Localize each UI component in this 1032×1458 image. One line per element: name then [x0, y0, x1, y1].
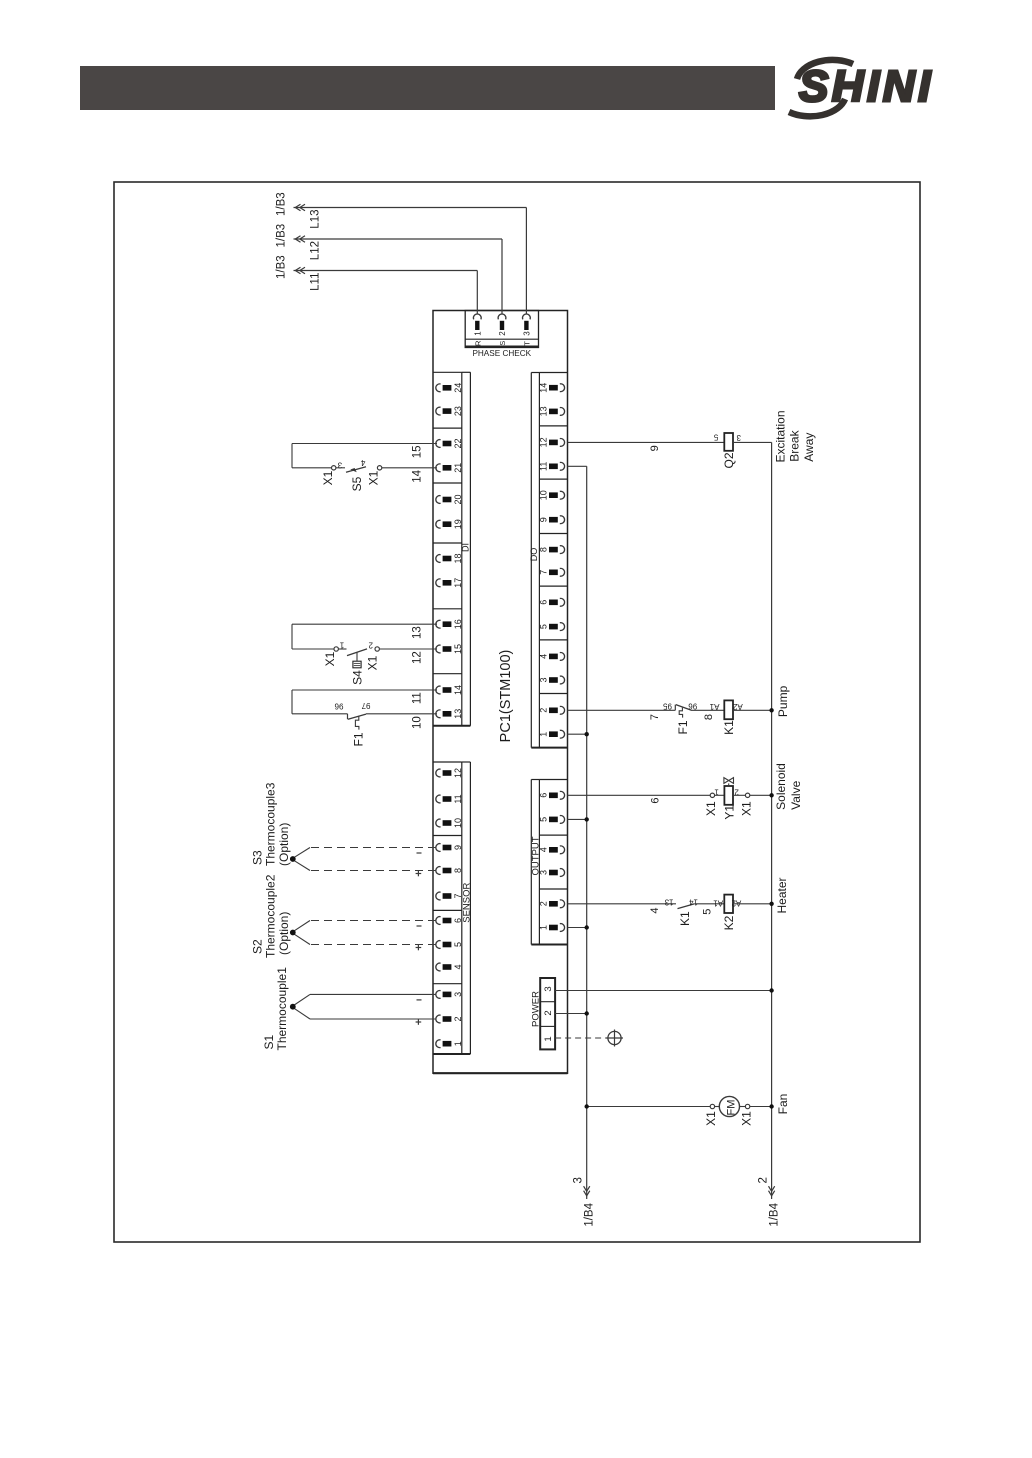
connector X1 pin 3 [332, 466, 336, 470]
terminal 10 [436, 819, 441, 827]
terminal 16 [436, 620, 441, 628]
terminal 13 [436, 710, 441, 718]
connector X1 [710, 1104, 714, 1108]
terminal 11 [560, 462, 565, 470]
svg-text:14: 14 [538, 383, 548, 393]
svg-text:S: S [498, 341, 507, 346]
svg-text:FM: FM [726, 1100, 738, 1116]
terminal 3 [560, 869, 565, 877]
svg-text:10: 10 [453, 818, 463, 828]
svg-text:A2: A2 [731, 899, 741, 908]
svg-text:14: 14 [689, 897, 698, 906]
vertical bus wire (neutral, from DO11) [586, 466, 588, 1199]
thermocouple S3 junction [290, 856, 296, 862]
svg-text:17: 17 [453, 578, 463, 588]
terminal 5 [560, 623, 565, 631]
relay coil K1 [724, 700, 733, 719]
svg-text:5: 5 [713, 433, 718, 442]
wire from DO11 to bus [568, 465, 587, 467]
wire DO1 to bus [568, 733, 587, 735]
svg-text:4: 4 [538, 847, 548, 852]
diagram frame [114, 182, 920, 1242]
svg-text:Away: Away [802, 433, 816, 462]
terminal 6 [560, 598, 565, 606]
solenoid valve coil Y1 [715, 794, 725, 796]
svg-text:5: 5 [453, 942, 463, 947]
wire 10 (DI13) [292, 713, 348, 715]
wire Q2 to bus [733, 441, 772, 443]
controller block PC1(STM100) outline [433, 311, 568, 1074]
svg-text:7: 7 [538, 570, 548, 575]
svg-text:T: T [523, 341, 532, 346]
svg-text:6: 6 [538, 600, 548, 605]
svg-text:1/B4: 1/B4 [768, 1202, 780, 1226]
svg-text:S3: S3 [250, 850, 264, 865]
relay coil K2 [724, 895, 733, 913]
terminal 5 [436, 941, 441, 949]
arrow 1/B3 L12 [295, 236, 300, 242]
terminal 3 [436, 990, 441, 998]
DI group boxes [433, 371, 462, 373]
svg-text:Thermocouple2: Thermocouple2 [264, 874, 278, 958]
svg-text:4: 4 [453, 964, 463, 969]
svg-text:3: 3 [523, 331, 532, 336]
wire POWER3 to bus [555, 990, 772, 992]
svg-text:Q2: Q2 [722, 452, 736, 468]
svg-text:95: 95 [663, 702, 672, 711]
svg-text:K1: K1 [678, 911, 692, 926]
wire L11 from 1/B3 [294, 270, 478, 272]
svg-text:S5: S5 [350, 476, 364, 491]
phase check terminal 1 (R) [473, 314, 481, 319]
svg-text:(Option): (Option) [277, 823, 291, 866]
terminal 15 [436, 645, 441, 653]
svg-text:Fan: Fan [776, 1094, 790, 1115]
thermocouple S2 junction [290, 930, 296, 936]
svg-text:X1: X1 [704, 1111, 718, 1126]
svg-text:13: 13 [538, 406, 548, 416]
svg-text:X1: X1 [321, 470, 335, 485]
svg-text:8: 8 [703, 714, 715, 720]
wire 11 (DI14 loop) [292, 689, 437, 691]
wire FM to bus [750, 1106, 772, 1108]
wire OUTPUT5 to bus [568, 818, 587, 820]
svg-text:14: 14 [412, 469, 424, 482]
terminal 7 [436, 892, 441, 900]
svg-text:A1: A1 [713, 899, 723, 908]
terminal 6 [436, 917, 441, 925]
svg-text:1/B4: 1/B4 [584, 1202, 596, 1226]
svg-text:SENSOR: SENSOR [461, 883, 472, 923]
svg-text:Thermocouple1: Thermocouple1 [275, 967, 289, 1051]
svg-text:X1: X1 [704, 801, 718, 816]
svg-text:5: 5 [538, 624, 548, 629]
svg-text:9: 9 [649, 445, 661, 451]
junction [585, 1011, 589, 1015]
svg-text:X1: X1 [739, 801, 753, 816]
svg-text:13: 13 [664, 897, 673, 906]
polarity marks [417, 999, 422, 1001]
svg-text:12: 12 [453, 768, 463, 778]
connector X1 pin 1 [710, 793, 714, 797]
svg-text:Pump: Pump [776, 685, 790, 717]
svg-text:4: 4 [538, 654, 548, 659]
OUTPUT terminal strip band [530, 780, 532, 945]
svg-text:16: 16 [453, 619, 463, 629]
polarity marks [417, 852, 422, 854]
svg-text:POWER: POWER [530, 991, 541, 1027]
wire POWER1 to earth (dashed) [555, 1037, 607, 1039]
junction [585, 817, 589, 821]
phase check terminal 3 (T) [523, 314, 531, 319]
svg-text:1: 1 [538, 925, 548, 930]
svg-text:12: 12 [538, 437, 548, 447]
svg-text:96: 96 [334, 702, 343, 711]
wire L12 from 1/B3 [294, 238, 503, 240]
connector X1 pin 4 [377, 466, 381, 470]
terminal 13 [560, 408, 565, 416]
switch S5 [336, 467, 345, 469]
svg-text:4: 4 [649, 907, 661, 913]
svg-text:Y1: Y1 [723, 805, 737, 820]
svg-text:15: 15 [453, 644, 463, 654]
wire L13 from 1/B3 [294, 207, 527, 209]
svg-text:15: 15 [412, 446, 424, 459]
terminal 1 [560, 730, 565, 738]
svg-text:3: 3 [453, 992, 463, 997]
terminal 14 [560, 384, 565, 392]
terminal 14 [436, 686, 441, 694]
terminal 5 [560, 816, 565, 824]
svg-text:13: 13 [412, 626, 424, 639]
svg-text:Heater: Heater [775, 877, 789, 913]
svg-text:6: 6 [649, 797, 661, 803]
terminal 21 [436, 464, 441, 472]
wire to DI21 [382, 467, 437, 469]
svg-text:97: 97 [361, 701, 370, 710]
svg-text:X1: X1 [366, 655, 380, 670]
terminal 2 [560, 706, 565, 714]
svg-text:L11: L11 [310, 273, 322, 291]
terminal 22 [436, 440, 441, 448]
svg-text:8: 8 [538, 547, 548, 552]
wire 7 from DO2 [568, 709, 676, 711]
svg-text:9: 9 [453, 845, 463, 850]
svg-text:3: 3 [543, 986, 554, 991]
thermal overload contact F1 (95-96) [674, 705, 676, 711]
svg-text:OUTPUT: OUTPUT [530, 836, 541, 875]
terminal 1 [560, 924, 565, 932]
OUTPUT group boxes [539, 779, 567, 781]
svg-text:9: 9 [538, 517, 548, 522]
svg-text:1/B3: 1/B3 [276, 224, 288, 248]
terminal 9 [560, 516, 565, 524]
svg-text:8: 8 [453, 868, 463, 873]
wire K1 to bus [733, 709, 772, 711]
junction [585, 925, 589, 929]
svg-text:1/B3: 1/B3 [276, 255, 288, 279]
svg-text:19: 19 [453, 519, 463, 529]
terminal 23 [436, 407, 441, 415]
junction [585, 732, 589, 736]
arrow 1/B3 L13 [295, 204, 300, 210]
terminal 12 [436, 769, 441, 777]
terminal 1 [436, 1040, 441, 1048]
wire 14 (DI21) [292, 467, 332, 469]
svg-text:S4: S4 [351, 670, 365, 685]
svg-text:S2: S2 [250, 939, 264, 954]
terminal 11 [436, 795, 441, 803]
terminal 6 [560, 791, 565, 799]
svg-text:96: 96 [688, 702, 697, 711]
polarity marks [417, 925, 422, 927]
terminal 8 [436, 867, 441, 875]
svg-text:(Option): (Option) [277, 912, 291, 955]
svg-text:F1: F1 [676, 720, 690, 734]
svg-text:2: 2 [453, 1016, 463, 1021]
svg-text:2: 2 [543, 1010, 554, 1015]
phase check terminal 2 (S) [498, 314, 506, 319]
svg-text:DI: DI [460, 543, 470, 552]
wire 13 (DI16 loop) [292, 623, 437, 625]
svg-text:2: 2 [538, 901, 548, 906]
svg-text:PC1(STM100): PC1(STM100) [498, 650, 514, 743]
svg-text:2: 2 [368, 640, 373, 649]
SHINI logo [799, 62, 934, 111]
connector X1 pin 2 [375, 647, 379, 651]
wire 5 [694, 903, 724, 905]
svg-text:14: 14 [453, 685, 463, 695]
wire Y1 to bus [750, 794, 772, 796]
svg-text:Solenoid: Solenoid [774, 763, 788, 810]
wire 15 (DI22 loop) [292, 443, 437, 445]
svg-text:22: 22 [453, 438, 463, 448]
svg-text:13: 13 [453, 709, 463, 719]
wire 6 from OUTPUT6 [568, 794, 711, 796]
svg-text:S1: S1 [262, 1034, 276, 1049]
DI terminal strip band [461, 372, 463, 726]
junction [769, 793, 773, 797]
svg-text:23: 23 [453, 406, 463, 416]
terminal 3 [560, 676, 565, 684]
svg-text:1: 1 [474, 331, 483, 336]
svg-text:Valve: Valve [789, 780, 803, 809]
protective earth symbol [608, 1031, 621, 1044]
junction [769, 1104, 773, 1108]
svg-text:X1: X1 [739, 1111, 753, 1126]
vertical bus wire (from Q2) [771, 442, 773, 1199]
svg-text:X1: X1 [367, 470, 381, 485]
DO group boxes [539, 372, 567, 374]
phase check block [465, 311, 538, 348]
terminal 2 [436, 1015, 441, 1023]
terminal 4 [436, 963, 441, 971]
terminal 8 [560, 546, 565, 554]
svg-text:K1: K1 [722, 720, 736, 735]
svg-text:Break: Break [788, 429, 802, 461]
terminal 20 [436, 496, 441, 504]
svg-text:11: 11 [453, 794, 463, 803]
breaker Q2 [724, 433, 733, 451]
svg-text:10: 10 [412, 716, 424, 729]
wire OUTPUT1 to bus [568, 927, 587, 929]
svg-text:PHASE CHECK: PHASE CHECK [472, 349, 531, 358]
arrow 1/B3 L11 [295, 267, 300, 273]
svg-text:21: 21 [453, 463, 463, 473]
svg-text:7: 7 [453, 893, 463, 898]
wire 12 (DI15) [292, 648, 334, 650]
terminal 9 [436, 844, 441, 852]
terminal 17 [436, 579, 441, 587]
svg-text:1: 1 [453, 1041, 463, 1046]
svg-text:7: 7 [649, 714, 661, 720]
terminal 24 [436, 384, 441, 392]
relay contact K1 (13-14) [678, 904, 695, 909]
wire 9 from DO12 [568, 441, 725, 443]
arrow to 1/B4 (wire 2) [769, 1186, 775, 1191]
svg-text:F1: F1 [352, 732, 366, 746]
svg-text:L13: L13 [310, 210, 322, 229]
wire 4 from OUTPUT2 [568, 903, 677, 905]
switch S4 (pressure switch) [338, 648, 346, 650]
svg-text:2: 2 [498, 331, 507, 336]
svg-text:R: R [474, 340, 483, 346]
svg-text:X1: X1 [323, 651, 337, 666]
svg-text:2: 2 [757, 1177, 769, 1183]
arrow to 1/B4 (wire 3) [584, 1186, 590, 1191]
SENSOR group boxes [433, 761, 462, 763]
svg-text:K2: K2 [722, 915, 736, 930]
thermocouple S3 wires [310, 847, 436, 849]
svg-text:20: 20 [453, 494, 463, 504]
svg-text:A1: A1 [709, 702, 719, 711]
svg-text:5: 5 [702, 909, 714, 915]
svg-text:3: 3 [736, 433, 741, 442]
terminal 4 [560, 653, 565, 661]
junction [769, 988, 773, 992]
connector X1 pin 2 [733, 794, 745, 796]
header bar [80, 66, 775, 110]
SENSOR terminal strip band [461, 762, 463, 1054]
terminal 7 [560, 568, 565, 576]
thermocouple S2 wires [310, 920, 436, 922]
junction [769, 708, 773, 712]
wire 8 [690, 709, 724, 711]
connector X1 pin 1 [334, 647, 338, 651]
svg-text:1: 1 [538, 732, 548, 737]
connector X1 [740, 1106, 746, 1108]
svg-text:24: 24 [453, 383, 463, 393]
svg-text:12: 12 [412, 651, 424, 664]
svg-text:A2: A2 [732, 702, 742, 711]
terminal 4 [560, 846, 565, 854]
fan motor FM [715, 1106, 720, 1108]
svg-text:1: 1 [339, 640, 344, 649]
thermal overload contact F1 (96-97) [347, 714, 349, 720]
svg-text:SHINI: SHINI [799, 62, 934, 111]
junction [769, 902, 773, 906]
svg-text:Thermocouple3: Thermocouple3 [264, 782, 278, 866]
DO terminal strip band [530, 373, 532, 748]
svg-text:11: 11 [538, 462, 548, 471]
svg-text:L12: L12 [310, 241, 322, 260]
wire POWER2 to bus [555, 1013, 587, 1015]
svg-text:DO: DO [529, 548, 539, 562]
svg-text:6: 6 [538, 793, 548, 798]
svg-text:3: 3 [538, 677, 548, 682]
svg-text:4: 4 [360, 458, 365, 467]
terminal 19 [436, 520, 441, 528]
POWER terminal block [540, 978, 555, 1049]
terminal 2 [560, 900, 565, 908]
svg-text:10: 10 [538, 490, 548, 500]
terminal 18 [436, 555, 441, 563]
svg-text:3: 3 [573, 1177, 585, 1183]
wire K2 to bus [733, 903, 772, 905]
svg-text:1/B3: 1/B3 [276, 192, 288, 216]
svg-text:Excitation: Excitation [773, 410, 787, 462]
svg-text:3: 3 [538, 870, 548, 875]
junction [585, 1104, 589, 1108]
svg-text:1: 1 [543, 1036, 554, 1041]
svg-text:11: 11 [412, 692, 424, 704]
wire fan [587, 1106, 711, 1108]
svg-text:5: 5 [538, 817, 548, 822]
svg-text:2: 2 [538, 708, 548, 713]
terminal 12 [560, 439, 565, 447]
thermocouple S1 wires [310, 993, 436, 995]
svg-text:18: 18 [453, 553, 463, 563]
thermocouple S1 junction [290, 1004, 296, 1010]
terminal 10 [560, 491, 565, 499]
svg-text:6: 6 [453, 918, 463, 923]
